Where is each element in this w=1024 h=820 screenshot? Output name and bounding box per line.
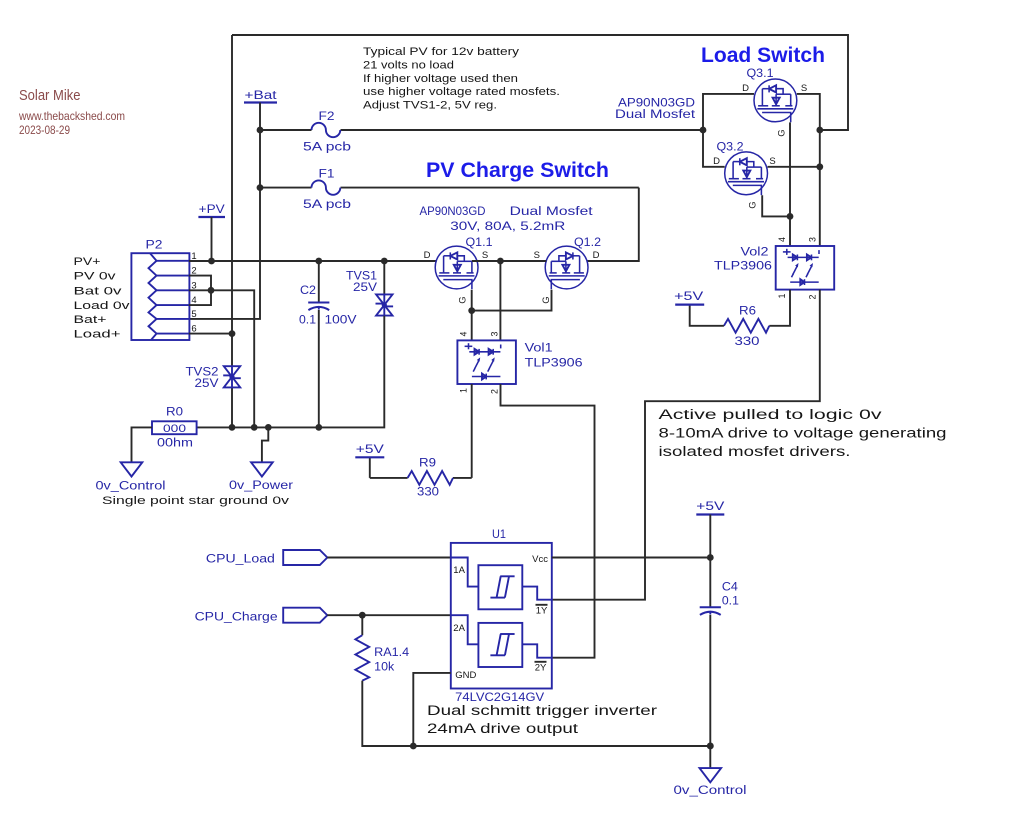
svg-text:5A pcb: 5A pcb xyxy=(303,197,351,211)
wire CPU_Load to 1A xyxy=(327,557,451,559)
svg-text:+5V: +5V xyxy=(674,289,704,303)
wire 0v_Power tap xyxy=(262,427,268,462)
svg-text:+5V: +5V xyxy=(356,442,385,456)
wire Q3.2 source xyxy=(768,166,820,168)
svg-text:F2: F2 xyxy=(319,109,335,123)
junction xyxy=(208,287,215,294)
capacitor C4 xyxy=(700,606,721,608)
optocoupler Vol2 xyxy=(776,246,835,290)
svg-text:Dual schmitt trigger inverter: Dual schmitt trigger inverter xyxy=(427,703,658,718)
input tag CPU_Load xyxy=(283,550,327,565)
svg-text:C2: C2 xyxy=(300,283,316,297)
svg-text:0.1: 0.1 xyxy=(722,594,739,608)
resistor RA1.4 xyxy=(355,635,369,680)
svg-text:S: S xyxy=(534,250,540,261)
svg-text:Q3.1: Q3.1 xyxy=(747,66,774,80)
junction xyxy=(787,213,794,220)
fuse F2 xyxy=(312,123,341,137)
junction xyxy=(257,127,264,134)
svg-text:Vcc: Vcc xyxy=(532,554,548,565)
svg-text:00hm: 00hm xyxy=(157,436,193,450)
wire Vcc row xyxy=(552,557,711,559)
resistor R9 xyxy=(408,471,453,485)
wire Load+ vertical xyxy=(231,35,233,366)
svg-text:Adjust TVS1-2, 5V reg.: Adjust TVS1-2, 5V reg. xyxy=(363,100,497,112)
svg-text:Load Switch: Load Switch xyxy=(701,43,825,67)
svg-text:3: 3 xyxy=(808,237,818,242)
resistor R6 xyxy=(724,319,769,333)
svg-text:S: S xyxy=(482,250,488,261)
svg-text:1A: 1A xyxy=(453,565,465,576)
svg-text:Load 0v: Load 0v xyxy=(74,300,131,312)
junction xyxy=(410,743,417,750)
junction xyxy=(700,127,707,134)
svg-text:GND: GND xyxy=(455,670,476,681)
svg-text:Load+: Load+ xyxy=(74,329,121,341)
wire Vol1 pin2 to 2Y xyxy=(501,384,595,658)
tvs TVS1 xyxy=(376,294,392,305)
gate schmitt 1 xyxy=(451,558,479,587)
svg-text:TLP3906: TLP3906 xyxy=(714,259,772,273)
svg-text:Solar Mike: Solar Mike xyxy=(19,87,81,104)
svg-text:2: 2 xyxy=(808,294,818,299)
wire top rail xyxy=(232,35,848,130)
svg-text:74LVC2G14GV: 74LVC2G14GV xyxy=(455,690,544,704)
svg-text:2A: 2A xyxy=(453,623,465,634)
svg-text:5: 5 xyxy=(191,309,196,320)
capacitor C2 xyxy=(308,302,329,304)
svg-text:25V: 25V xyxy=(195,376,220,390)
svg-text:S: S xyxy=(801,83,807,94)
svg-text:TLP3906: TLP3906 xyxy=(525,356,583,370)
optocoupler Vol1 xyxy=(457,340,516,384)
junction xyxy=(229,424,236,431)
svg-text:D: D xyxy=(424,250,431,261)
svg-text:use higher voltage rated mosfe: use higher voltage rated mosfets. xyxy=(363,86,560,98)
svg-text:24mA drive output: 24mA drive output xyxy=(427,721,578,736)
wire C4 bottom xyxy=(709,615,711,768)
wire F1 row xyxy=(260,187,312,189)
wire pin1 row xyxy=(189,260,437,262)
junction xyxy=(208,258,215,265)
svg-text:Active pulled to logic 0v: Active pulled to logic 0v xyxy=(659,407,882,422)
svg-text:D: D xyxy=(713,156,720,167)
wire C2 top xyxy=(318,261,320,303)
wire Q3.1 source xyxy=(797,94,820,246)
svg-text:0v_Control: 0v_Control xyxy=(96,479,166,493)
power +PV xyxy=(198,216,225,218)
svg-text:Q3.2: Q3.2 xyxy=(717,140,744,154)
svg-text:F1: F1 xyxy=(319,167,335,181)
svg-text:2: 2 xyxy=(489,389,499,394)
wire sources to Vol1 pin3 xyxy=(499,261,501,340)
wire Q3 drains xyxy=(703,94,754,167)
svg-text:G: G xyxy=(458,296,469,303)
gate schmitt 2 xyxy=(451,615,479,644)
wire Vol2 pin1 down xyxy=(769,290,790,326)
wire +PV to pin1 xyxy=(211,217,213,261)
junction xyxy=(816,127,823,134)
svg-text:Vol2: Vol2 xyxy=(741,245,769,259)
svg-text:10k: 10k xyxy=(374,660,395,674)
svg-text:D: D xyxy=(742,83,749,94)
wire F1 to Q1.2 drain xyxy=(587,188,639,261)
wire Q3.1 gate xyxy=(789,122,791,216)
svg-text:30V, 80A, 5.2mR: 30V, 80A, 5.2mR xyxy=(450,219,565,233)
svg-text:R0: R0 xyxy=(166,405,183,419)
svg-text:R6: R6 xyxy=(739,304,756,318)
wire Q1 sources xyxy=(472,260,546,262)
svg-text:1: 1 xyxy=(777,293,787,298)
wire Q1.1 gate xyxy=(471,290,473,311)
wire Vol1 pin1 down xyxy=(471,384,473,478)
wire pin3 xyxy=(189,289,211,291)
svg-text:4: 4 xyxy=(459,331,469,336)
svg-text:Dual Mosfet: Dual Mosfet xyxy=(615,107,696,121)
power +5V R9 xyxy=(369,457,371,478)
svg-text:PV 0v: PV 0v xyxy=(74,271,117,283)
ground 0v_Power xyxy=(251,462,273,476)
svg-text:1Y: 1Y xyxy=(536,606,548,617)
input tag CPU_Charge xyxy=(283,608,327,623)
svg-text:330: 330 xyxy=(417,485,439,499)
transistor Q1.2 xyxy=(545,246,588,289)
svg-text:0v_Control: 0v_Control xyxy=(674,783,747,797)
wire C2 bottom xyxy=(318,310,320,428)
wire Vol2 pin2 to 1Y xyxy=(552,290,820,600)
svg-text:Bat 0v: Bat 0v xyxy=(74,285,123,297)
junction xyxy=(381,258,388,265)
wire TVS1 top xyxy=(383,261,385,294)
svg-text:CPU_Charge: CPU_Charge xyxy=(195,610,278,624)
svg-text:Bat+: Bat+ xyxy=(74,314,107,326)
wire F2 row xyxy=(260,129,312,131)
svg-text:R9: R9 xyxy=(419,456,436,470)
svg-text:+5V: +5V xyxy=(696,499,725,513)
wire Q3.2 gate xyxy=(762,195,790,216)
svg-text:www.thebackshed.com: www.thebackshed.com xyxy=(18,109,125,123)
svg-text:+Bat: +Bat xyxy=(245,88,278,102)
junction xyxy=(229,330,236,337)
svg-text:Single point star ground 0v: Single point star ground 0v xyxy=(102,495,290,507)
svg-text:If higher voltage used then: If higher voltage used then xyxy=(363,73,518,85)
power +5V R6 xyxy=(675,304,704,306)
fuse F1 xyxy=(312,180,341,194)
wire RA1.4 bottom rail xyxy=(362,681,710,746)
wire gates to Vol2 pin4 xyxy=(789,216,791,246)
tvs TVS2 xyxy=(224,366,240,377)
svg-text:5A pcb: 5A pcb xyxy=(303,140,351,154)
transistor Q3.2 xyxy=(725,152,768,195)
svg-text:CPU_Load: CPU_Load xyxy=(206,552,275,566)
svg-text:G: G xyxy=(777,129,788,136)
svg-text:Q1.1: Q1.1 xyxy=(466,235,493,249)
wire +Bat vertical xyxy=(189,103,260,319)
svg-text:C4: C4 xyxy=(722,580,738,594)
svg-text:2023-08-29: 2023-08-29 xyxy=(19,125,70,137)
svg-text:0.1: 0.1 xyxy=(299,313,316,327)
svg-text:PV+: PV+ xyxy=(74,256,101,268)
junction xyxy=(315,258,322,265)
wire pin6 xyxy=(189,333,232,335)
transistor Q1.1 xyxy=(435,246,478,289)
wire pins 2-4 bracket xyxy=(189,276,211,306)
svg-text:Dual Mosfet: Dual Mosfet xyxy=(510,204,594,218)
wire Q1.2 gate xyxy=(472,290,552,311)
wire CPU_Charge to 2A xyxy=(327,614,451,616)
wire R6 to +5V xyxy=(690,305,724,326)
svg-text:D: D xyxy=(593,250,600,261)
transistor Q3.1 xyxy=(754,79,797,122)
junction xyxy=(707,743,714,750)
wire RA1.4 top xyxy=(361,615,363,635)
wire gates to Vol1 pin4 xyxy=(471,311,473,341)
ground 0v_Control xyxy=(121,462,143,476)
svg-text:+PV: +PV xyxy=(199,202,226,216)
svg-text:0v_Power: 0v_Power xyxy=(229,478,293,492)
svg-text:RA1.4: RA1.4 xyxy=(374,645,409,659)
svg-text:U1: U1 xyxy=(492,527,506,541)
wire +5V down to C4 xyxy=(709,515,711,608)
wire pin3 to ground rail xyxy=(211,290,254,427)
ic U1 74LVC2G14GV xyxy=(451,543,552,689)
wire U1 GND xyxy=(413,673,451,746)
svg-text:G: G xyxy=(747,201,758,208)
svg-text:100V: 100V xyxy=(325,313,358,327)
svg-text:1: 1 xyxy=(459,388,469,393)
svg-text:P2: P2 xyxy=(146,238,163,252)
svg-text:S: S xyxy=(769,156,775,167)
svg-text:Vol1: Vol1 xyxy=(525,341,553,355)
svg-text:25V: 25V xyxy=(353,280,378,294)
svg-text:3: 3 xyxy=(489,331,499,336)
power +5V U1 xyxy=(696,513,724,515)
svg-text:Q1.2: Q1.2 xyxy=(574,235,601,249)
resistor R0 xyxy=(152,421,197,434)
wire R0 to 0v_Control ground xyxy=(132,427,153,462)
connector P2 xyxy=(131,253,189,340)
junction xyxy=(468,307,475,314)
svg-text:4: 4 xyxy=(777,237,787,242)
svg-text:21 volts no load: 21 volts no load xyxy=(363,59,454,71)
svg-text:2Y: 2Y xyxy=(535,663,547,674)
power +Bat xyxy=(244,101,277,103)
svg-text:8-10mA drive to voltage genera: 8-10mA drive to voltage generating xyxy=(659,426,947,441)
junction xyxy=(497,258,504,265)
wire R9 row xyxy=(453,477,472,479)
svg-text:Typical PV for 12v battery: Typical PV for 12v battery xyxy=(363,46,520,58)
ground 0v_Control bottom xyxy=(700,768,722,782)
svg-text:AP90N03GD: AP90N03GD xyxy=(420,204,486,218)
wire TVS1 bottom + ground rail xyxy=(197,316,385,428)
svg-text:330: 330 xyxy=(735,334,760,348)
junction xyxy=(707,554,714,561)
junction xyxy=(359,612,366,619)
svg-text:isolated mosfet drivers.: isolated mosfet drivers. xyxy=(659,444,851,459)
svg-text:PV Charge Switch: PV Charge Switch xyxy=(426,158,609,182)
svg-text:000: 000 xyxy=(163,423,186,435)
